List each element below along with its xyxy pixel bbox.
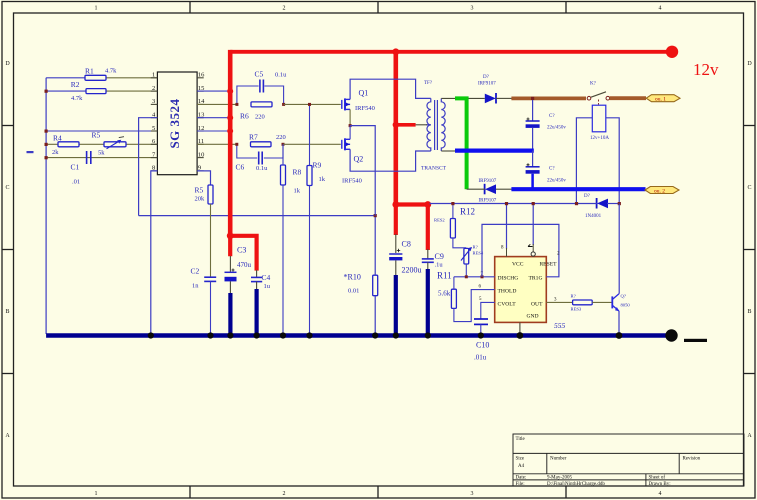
- resistor R? RES3: [571, 294, 593, 312]
- port flag out 1: [646, 95, 680, 103]
- svg-text:OUT: OUT: [531, 301, 543, 307]
- wire Q1 source to node A: [349, 109, 351, 125]
- svg-text:THOLD: THOLD: [498, 288, 517, 294]
- svg-text:C5: C5: [255, 70, 264, 79]
- resistor R6: [240, 102, 272, 121]
- transistor Q2 IRF540: [342, 138, 363, 184]
- 555 pin 5 CVOLT wire: [481, 302, 495, 318]
- svg-text:R4: R4: [53, 133, 62, 142]
- svg-text:8050: 8050: [621, 303, 631, 308]
- svg-text:1n: 1n: [192, 283, 199, 290]
- svg-text:Number: Number: [550, 457, 567, 462]
- junction red elbow: [227, 232, 234, 239]
- svg-text:R?: R?: [571, 294, 576, 299]
- junction red pin12: [227, 128, 233, 134]
- svg-text:*R10: *R10: [344, 273, 361, 282]
- svg-text:5.6k: 5.6k: [438, 290, 451, 298]
- svg-text:C2: C2: [191, 267, 200, 276]
- resistor R9: [307, 161, 326, 186]
- svg-text:2: 2: [283, 6, 286, 12]
- op-amp U1 SG3524 body: [157, 72, 197, 175]
- resistor R7: [249, 133, 286, 147]
- svg-text:IRF9107: IRF9107: [478, 82, 496, 87]
- svg-text:R2: R2: [71, 80, 80, 89]
- svg-text:555: 555: [554, 321, 566, 330]
- diode D? bottom IRF107: [479, 179, 497, 204]
- wire brown to flag out1: [610, 96, 646, 100]
- wire R7 to Q2 gate: [283, 143, 341, 145]
- ground terminal dash: [684, 339, 707, 342]
- wire pin4 to sense loop: [139, 118, 158, 216]
- wire R9 to bus: [309, 186, 311, 335]
- svg-text:A4: A4: [518, 464, 525, 469]
- U1 pin stubs left: [151, 78, 158, 171]
- svg-text:1k: 1k: [294, 188, 301, 195]
- svg-text:C: C: [5, 185, 9, 191]
- potentiometer R? RES4: [461, 245, 484, 265]
- junction R7 left: [235, 143, 238, 146]
- wire +12V top rail red: [230, 50, 672, 54]
- title block: [513, 434, 744, 486]
- wire pin13 to red rail: [197, 117, 230, 119]
- wire control rail y203: [430, 203, 598, 205]
- wire R4 R5 line pin6: [46, 143, 157, 145]
- wire node A to Q2 drain: [349, 126, 351, 140]
- capacitor C8 2200u: [389, 234, 421, 334]
- junction x46 pin5: [45, 130, 48, 133]
- wire secondary top to diode: [441, 97, 485, 99]
- svg-text:20k: 20k: [195, 196, 206, 203]
- 555 pin 3 OUT wire: [546, 301, 572, 303]
- wire R9 top to gate line: [309, 104, 311, 165]
- svg-text:10: 10: [198, 151, 205, 158]
- wire C2 to bus: [210, 281, 212, 334]
- svg-text:K?: K?: [590, 82, 597, 87]
- junction rail RESET: [532, 202, 535, 205]
- svg-text:File:: File:: [516, 482, 525, 487]
- svg-text:.01: .01: [72, 179, 80, 186]
- svg-text:Q?: Q?: [621, 294, 626, 299]
- junction rail RES2: [451, 202, 454, 205]
- capacitor C? filter top 22u450v: [526, 98, 567, 150]
- wire pin11 to R7 node: [197, 143, 237, 145]
- capacitor C1: [71, 151, 91, 186]
- svg-text:R11: R11: [437, 271, 452, 281]
- U1 pin numbers 16-9: [198, 72, 205, 172]
- wire R5 20k to C2: [210, 204, 212, 277]
- ground junction dots: [148, 332, 623, 339]
- svg-text:220: 220: [255, 114, 265, 121]
- wire loop pin7 to pin2: [482, 224, 559, 276]
- wire secondary bottom: [441, 150, 455, 152]
- svg-text:0.1u: 0.1u: [256, 165, 268, 172]
- svg-text:C1: C1: [71, 163, 80, 172]
- svg-text:C3: C3: [237, 246, 246, 255]
- wire RES2 to pot: [453, 238, 466, 248]
- svg-text:C: C: [747, 185, 751, 191]
- svg-text:220: 220: [276, 134, 286, 141]
- svg-text:R5: R5: [92, 130, 101, 139]
- svg-text:C6: C6: [236, 163, 245, 172]
- svg-text:VCC: VCC: [512, 262, 524, 268]
- svg-text:CVOLT: CVOLT: [498, 301, 517, 307]
- junction x46 pin2: [45, 90, 48, 93]
- resistor R8: [281, 165, 302, 195]
- wire sense line down to R10: [374, 216, 376, 276]
- wire R8 to bus: [282, 185, 284, 334]
- junction top cap: [531, 97, 534, 100]
- wire diode to brown: [496, 97, 512, 99]
- wire diode to out2 thick blue: [496, 188, 512, 190]
- wire pin9 to R5 20k: [197, 171, 210, 185]
- wire center tap stub: [416, 124, 427, 126]
- svg-text:5: 5: [152, 125, 155, 132]
- resistor R11 5.6k: [437, 271, 456, 309]
- diode D? 1N4001: [584, 194, 608, 219]
- svg-text:TF?: TF?: [424, 81, 433, 86]
- junction R9 gate line: [308, 103, 311, 106]
- svg-text:DISCHG: DISCHG: [498, 275, 519, 281]
- port flag out 2: [645, 187, 679, 195]
- transistor Q? 8050: [612, 294, 630, 312]
- svg-text:C?: C?: [549, 114, 555, 119]
- svg-text:RESET: RESET: [539, 262, 557, 268]
- wire Q2 source to transformer bottom: [350, 149, 431, 171]
- junction red top center: [392, 48, 399, 55]
- wire red elbow to C3 C4: [230, 236, 256, 271]
- svg-text:GND: GND: [526, 314, 538, 320]
- svg-text:IRF540: IRF540: [355, 105, 375, 112]
- svg-text:4.7k: 4.7k: [71, 95, 83, 102]
- svg-text:1: 1: [95, 6, 98, 12]
- junction node A: [349, 124, 352, 127]
- svg-text:1k: 1k: [319, 176, 326, 183]
- svg-text:RES3: RES3: [571, 307, 582, 312]
- junction R7 right: [282, 143, 285, 146]
- potentiometer R5: [92, 130, 127, 156]
- resistor R12 RES2: [434, 207, 475, 239]
- relay K? coil box: [590, 105, 609, 141]
- junction R6 left: [235, 103, 238, 106]
- wire C1 line pin7: [46, 157, 157, 159]
- resistor R10 shunt: [344, 273, 378, 296]
- junction red pin15: [227, 88, 233, 94]
- svg-text:R9: R9: [313, 161, 322, 170]
- junction DISCHG loop: [481, 275, 484, 278]
- wire green link: [455, 98, 467, 189]
- svg-text:C?: C?: [549, 167, 555, 172]
- wire R6 to Q1 gate: [284, 103, 341, 105]
- resistor R1: [85, 75, 106, 80]
- junction rail VCC: [505, 202, 508, 205]
- wire green to diode: [467, 188, 485, 190]
- svg-text:C9: C9: [435, 252, 444, 261]
- svg-text:2: 2: [152, 85, 155, 92]
- wire R10 to bus: [374, 296, 376, 334]
- capacitor C2: [191, 267, 217, 290]
- svg-text:2: 2: [283, 491, 286, 497]
- wire red vertical center: [393, 50, 398, 205]
- junction red center tap: [393, 122, 399, 128]
- svg-text:22u/450v: 22u/450v: [547, 179, 566, 184]
- svg-text:ou. 1: ou. 1: [655, 97, 666, 103]
- transformer TF? TRANSCT: [426, 98, 445, 151]
- resistor R4: [58, 142, 79, 147]
- svg-text:RES2: RES2: [434, 218, 445, 223]
- svg-text:D: D: [747, 61, 752, 67]
- svg-text:2k: 2k: [52, 149, 59, 156]
- svg-text:Q2: Q2: [354, 155, 364, 164]
- svg-text:Q1: Q1: [359, 89, 369, 98]
- svg-text:12v+10A: 12v+10A: [590, 136, 609, 141]
- junction node sense at x375: [374, 214, 377, 217]
- 555 pin 8 VCC: [506, 204, 508, 250]
- svg-text:R8: R8: [293, 168, 302, 177]
- svg-text:1N4001: 1N4001: [585, 214, 602, 219]
- junction x46 pin6: [45, 143, 48, 146]
- wire pin8 down to ground bus: [151, 171, 158, 334]
- svg-text:2200u: 2200u: [402, 266, 422, 275]
- timer 555 body: [495, 257, 547, 323]
- svg-text:C10: C10: [476, 341, 489, 350]
- transistor Q1 IRF540: [342, 89, 375, 113]
- svg-text:ou. 2: ou. 2: [654, 188, 665, 194]
- junction rail relay-left: [575, 202, 578, 205]
- junction x46 pin7: [45, 156, 48, 159]
- svg-text:A: A: [5, 433, 10, 439]
- svg-text:TR1G: TR1G: [529, 275, 543, 281]
- wire out2 blue: [511, 187, 645, 191]
- U1 pin stubs right: [197, 78, 204, 171]
- svg-text:IRF9107: IRF9107: [479, 179, 497, 184]
- svg-text:4.7k: 4.7k: [105, 68, 117, 75]
- junction DISCHG pot: [465, 275, 468, 278]
- wire pot to DISCHG line: [465, 264, 467, 277]
- capacitor C? filter bottom 22u450v: [526, 151, 567, 190]
- svg-text:TRANSCT: TRANSCT: [421, 166, 447, 172]
- svg-text:R7: R7: [249, 133, 258, 142]
- wire sense line y215: [139, 215, 376, 217]
- svg-text:0.1u: 0.1u: [275, 72, 287, 79]
- diode D? top IRF107: [478, 75, 496, 104]
- svg-text:4: 4: [659, 491, 662, 497]
- svg-text:16: 16: [198, 72, 205, 79]
- svg-text:22u/450v: 22u/450v: [547, 126, 566, 131]
- svg-text:SG 3524: SG 3524: [167, 98, 182, 148]
- svg-text:A: A: [747, 433, 752, 439]
- wire left vertical rail x46: [45, 78, 47, 334]
- wire pin5 line: [46, 130, 157, 132]
- wire pin15 to red rail: [197, 90, 230, 92]
- svg-text:12v: 12v: [693, 60, 719, 79]
- svg-text:.01u: .01u: [474, 354, 487, 362]
- capacitor C9 .1u: [422, 249, 444, 334]
- 555 pin 4 RESET with bubble: [532, 204, 534, 246]
- capacitor C10 .01u: [474, 319, 489, 362]
- wire red T to C8 C9: [396, 205, 428, 251]
- junction rail relay-right: [618, 202, 621, 205]
- junction red pin13: [227, 115, 233, 121]
- wire Q1 drain to transformer top: [350, 79, 431, 99]
- svg-text:R1: R1: [85, 67, 94, 76]
- svg-text:3: 3: [471, 491, 474, 497]
- svg-text:R12: R12: [460, 207, 475, 217]
- svg-text:3: 3: [152, 98, 155, 105]
- wire RES3 to Q base: [592, 301, 612, 303]
- svg-text:R5: R5: [195, 186, 204, 195]
- svg-text:470u: 470u: [237, 261, 252, 269]
- wire R11 bottom to THOLD: [454, 290, 495, 322]
- svg-text:1: 1: [95, 491, 98, 497]
- svg-text:3: 3: [471, 6, 474, 12]
- junction R6 right: [282, 103, 285, 106]
- wire node A right and down to sense: [350, 126, 375, 216]
- capacitor C4 1u: [251, 270, 271, 334]
- svg-text:IRF9107: IRF9107: [479, 199, 497, 204]
- svg-text:IRF540: IRF540: [342, 178, 362, 185]
- node 12v terminal dot: [666, 46, 678, 58]
- svg-text:Revision: Revision: [683, 457, 701, 462]
- svg-text:D: D: [5, 61, 10, 67]
- resistor R2: [86, 89, 106, 94]
- svg-text:D:\Final\NinthHrCharge.ddb: D:\Final\NinthHrCharge.ddb: [547, 482, 605, 487]
- junction red T left: [392, 201, 399, 208]
- wire collector to rail: [618, 203, 620, 293]
- wire red center tap: [396, 123, 416, 127]
- svg-text:B: B: [747, 309, 751, 315]
- svg-text:0.01: 0.01: [348, 288, 359, 295]
- wire red vertical left: [228, 50, 233, 236]
- svg-text:C8: C8: [402, 240, 411, 249]
- wire RES2 top to rail: [452, 204, 454, 219]
- wire out1 brown: [511, 97, 586, 101]
- wire emitter to bus: [618, 311, 620, 334]
- svg-text:Size: Size: [516, 457, 525, 462]
- capacitor C6 loop: [237, 144, 283, 158]
- svg-text:D?: D?: [584, 194, 591, 199]
- svg-text:B: B: [5, 309, 9, 315]
- wire R1 line pin1: [46, 77, 85, 79]
- 555 GND stub: [519, 322, 521, 334]
- wire relay left down to rail: [576, 118, 592, 204]
- relay K? contact: [587, 82, 609, 105]
- svg-text:Title: Title: [516, 437, 526, 442]
- wire secondary common thick blue: [455, 149, 534, 153]
- svg-text:1u: 1u: [264, 283, 271, 290]
- capacitor C5 loop: [237, 86, 284, 104]
- ground terminal dot: [665, 329, 677, 341]
- U1 pin numbers 1-8: [152, 72, 156, 172]
- svg-text:Drawn By:: Drawn By:: [649, 482, 671, 487]
- svg-text:.1u: .1u: [435, 262, 444, 269]
- svg-text:9-May-2005: 9-May-2005: [547, 476, 572, 481]
- wire ground bus: [46, 333, 671, 337]
- svg-text:D?: D?: [483, 75, 490, 80]
- svg-text:Sheet of: Sheet of: [649, 476, 666, 481]
- resistor R5 20k: [195, 185, 214, 204]
- 555 pin 7 DISCHG wire: [454, 276, 495, 278]
- junction red T right: [424, 201, 431, 208]
- svg-text:4: 4: [659, 6, 662, 12]
- svg-text:1: 1: [152, 72, 155, 79]
- svg-text:5k: 5k: [98, 150, 105, 157]
- svg-text:C4: C4: [262, 273, 271, 282]
- wire R11 top: [453, 277, 455, 289]
- wire R2 line pin2: [46, 90, 86, 92]
- minus terminal mark: [27, 151, 34, 153]
- capacitor C3 470u: [225, 246, 252, 335]
- wire pin12 to red rail: [197, 130, 230, 132]
- wire pin14 to R6 node: [197, 103, 237, 105]
- wire relay right down: [606, 118, 619, 204]
- svg-text:Date:: Date:: [516, 476, 527, 481]
- svg-text:R?: R?: [473, 245, 478, 250]
- wire R8 top: [282, 144, 284, 165]
- svg-text:R6: R6: [240, 112, 249, 121]
